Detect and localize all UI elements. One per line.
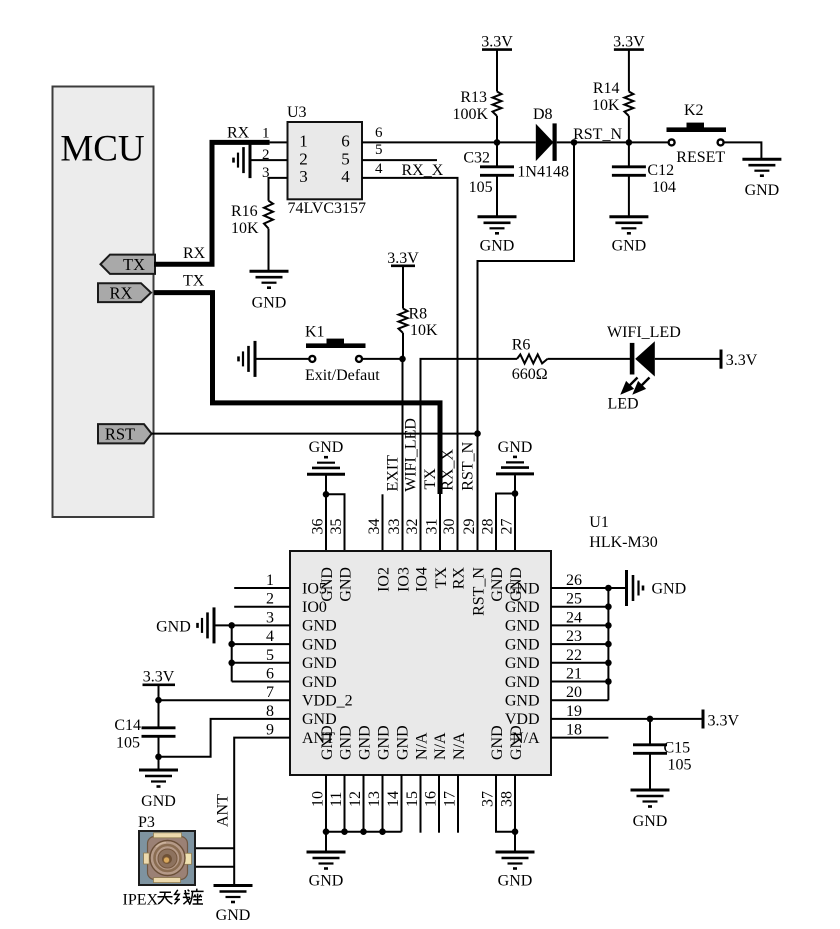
svg-text:D8: D8 [533, 106, 553, 123]
svg-text:14: 14 [385, 791, 402, 807]
wire tie pins 26-20 [607, 588, 609, 700]
svg-text:IO4: IO4 [413, 567, 430, 592]
svg-text:104: 104 [652, 179, 676, 196]
svg-text:GND: GND [489, 567, 506, 602]
svg-text:23: 23 [566, 628, 582, 645]
svg-text:19: 19 [566, 703, 582, 720]
svg-text:GND: GND [505, 693, 540, 710]
svg-text:N/A: N/A [432, 732, 449, 760]
svg-text:ANT: ANT [215, 794, 232, 827]
node B junction [626, 139, 633, 146]
wire tie to ground [325, 832, 327, 852]
wire U1 pin10 [325, 775, 327, 832]
wire U1 pin6 [232, 681, 290, 683]
svg-text:TX: TX [183, 273, 205, 290]
svg-text:105: 105 [469, 179, 493, 196]
svg-text:36: 36 [310, 519, 327, 535]
wire U3 pin6 to node A (D8 anode) [362, 141, 536, 143]
capacitor C14 [142, 726, 176, 729]
wire U1 pin14 [401, 775, 403, 832]
svg-text:U1: U1 [589, 514, 609, 531]
wire U1 pin 21 [551, 681, 608, 683]
svg-text:RST: RST [105, 424, 135, 443]
svg-text:3.3V: 3.3V [708, 713, 740, 730]
junction pin5 [228, 660, 235, 667]
ground (below C15) [631, 789, 670, 792]
svg-text:GND: GND [302, 636, 337, 653]
svg-text:105: 105 [668, 757, 692, 774]
svg-text:29: 29 [461, 519, 478, 535]
wire R16 to ground [268, 229, 270, 272]
svg-text:GND: GND [156, 619, 191, 636]
svg-text:GND: GND [745, 182, 780, 199]
svg-text:WIFI_LED: WIFI_LED [607, 324, 681, 341]
wire U1 pin37 [496, 775, 515, 832]
svg-text:2: 2 [266, 591, 274, 608]
node A junction [494, 139, 501, 146]
svg-text:GND: GND [498, 873, 533, 890]
wire U1 pin12 [363, 775, 365, 832]
junction pin3 [228, 622, 235, 629]
svg-text:RST_N: RST_N [460, 441, 477, 490]
wire U1 pin34 stub [382, 494, 384, 551]
wire tie pins3-6 [231, 625, 233, 681]
svg-text:GND: GND [302, 655, 337, 672]
junction RST/RST_N [474, 430, 481, 437]
wire RX thick (MCU TX to U3 pin1) [154, 142, 270, 264]
junction pin19/C15 [647, 716, 654, 723]
LED arrows [623, 378, 650, 393]
svg-text:GND: GND [319, 567, 336, 602]
svg-text:1: 1 [299, 132, 308, 151]
port RST (MCU) [98, 424, 152, 443]
wire U1 pin27 [514, 494, 516, 552]
junction pin7/3.3V [155, 697, 162, 704]
svg-text:37: 37 [480, 791, 497, 807]
wire 37/38 tie to ground [514, 832, 516, 852]
svg-text:2: 2 [299, 149, 308, 168]
svg-text:33: 33 [386, 519, 403, 535]
node C junction (K1/R8/EXIT) [399, 356, 406, 363]
svg-text:RST_N: RST_N [470, 567, 487, 616]
wire RST_N vertical jog [478, 142, 575, 551]
svg-text:R6: R6 [512, 336, 531, 353]
svg-text:LED: LED [608, 396, 639, 413]
svg-text:C14: C14 [114, 717, 141, 734]
IC U3 body [288, 122, 363, 199]
junction pin 21 [605, 678, 612, 685]
wire U1 pin7 to 3.3V [159, 699, 291, 701]
wire R13 to node A [496, 116, 498, 142]
svg-text:11: 11 [328, 792, 345, 807]
svg-text:GND: GND [652, 581, 687, 598]
ground GND (above U1 pins 36/35) [307, 473, 345, 476]
junction pin12 [360, 828, 367, 835]
svg-text:3.3V: 3.3V [726, 352, 758, 369]
svg-text:C15: C15 [664, 740, 691, 757]
svg-text:35: 35 [328, 519, 345, 535]
svg-text:GND: GND [612, 238, 647, 255]
IC U1 body [290, 551, 551, 775]
wire U1 pin1 stub [234, 587, 290, 589]
svg-text:RX: RX [227, 125, 250, 142]
svg-text:7: 7 [266, 684, 274, 701]
junction pin 25 [605, 603, 612, 610]
wire U1 pin9 / ANT [234, 738, 290, 886]
wire U1 pin35 [326, 494, 345, 551]
svg-text:K1: K1 [305, 324, 325, 341]
svg-text:17: 17 [442, 791, 459, 807]
svg-text:16: 16 [423, 791, 440, 807]
svg-text:100K: 100K [452, 106, 488, 123]
junction pin 22 [605, 660, 612, 667]
wire U1 pin26 to ground [551, 587, 627, 589]
capacitor C12 [628, 142, 630, 166]
wire U1 pin3 [214, 624, 290, 626]
svg-text:3: 3 [299, 167, 308, 186]
wire U1 pin4 [232, 643, 290, 645]
svg-text:GND: GND [505, 599, 540, 616]
junction pin26 [605, 585, 612, 592]
junction pin11 [341, 828, 348, 835]
wire U1 pin8 [159, 719, 291, 757]
svg-text:GND: GND [505, 580, 540, 597]
svg-text:WIFI_LED: WIFI_LED [403, 418, 420, 492]
capacitor C15 [649, 719, 651, 744]
ground (below pins 37/38) [496, 851, 535, 854]
junction pin 24 [605, 622, 612, 629]
svg-text:GND: GND [309, 439, 344, 456]
svg-text:GND: GND [302, 618, 337, 635]
wire U1 pin28 [496, 494, 515, 552]
svg-text:15: 15 [404, 791, 421, 807]
ground (below C12) [609, 215, 648, 218]
svg-text:20: 20 [566, 684, 582, 701]
svg-text:VDD_2: VDD_2 [302, 693, 353, 710]
junction RST_N tap [571, 139, 578, 146]
svg-text:8: 8 [266, 703, 274, 720]
svg-text:GND: GND [480, 238, 515, 255]
svg-text:GND: GND [319, 725, 336, 760]
svg-text:5: 5 [266, 647, 274, 664]
ground (U1 pin3, sideways) [213, 607, 216, 643]
svg-text:GND: GND [498, 439, 533, 456]
svg-text:21: 21 [566, 666, 582, 683]
svg-text:3.3V: 3.3V [613, 33, 645, 50]
svg-text:4: 4 [341, 167, 350, 186]
wire U3 pin4 / RX_X [362, 178, 458, 551]
svg-text:1N4148: 1N4148 [517, 163, 569, 180]
junction pin38 [512, 828, 519, 835]
svg-text:6: 6 [375, 125, 383, 141]
resistor R8 [399, 309, 408, 334]
svg-text:GND: GND [633, 813, 668, 830]
svg-text:32: 32 [404, 519, 421, 535]
wire U1 pin 25 [551, 606, 608, 608]
wire ANT to P3 (upper) [195, 847, 234, 849]
wire U1 pin11 [344, 775, 346, 832]
capacitor C32 [496, 142, 498, 166]
svg-text:38: 38 [499, 791, 516, 807]
wire U1 pin15 stub [420, 775, 422, 833]
wire U1 pin18 stub [551, 737, 608, 739]
svg-text:R8: R8 [409, 305, 428, 322]
wire R14 to node B [628, 116, 630, 142]
svg-text:VDD: VDD [505, 711, 540, 728]
svg-text:N/A: N/A [512, 730, 540, 747]
svg-text:RX: RX [110, 283, 133, 302]
diode D8 [536, 124, 554, 161]
svg-text:GND: GND [141, 793, 176, 810]
svg-text:GND: GND [489, 725, 506, 760]
port RX (MCU) [98, 283, 151, 302]
wire U1 pin36 [325, 494, 327, 551]
svg-text:RX: RX [450, 567, 467, 590]
junction pin10 [323, 828, 330, 835]
svg-text:P3: P3 [138, 814, 155, 831]
LED WIFI_LED (D) [630, 343, 635, 375]
wire D8 cathode to K2 node [557, 141, 669, 143]
wire LED to 3.3V [655, 358, 720, 360]
svg-text:10K: 10K [592, 97, 620, 114]
svg-text:28: 28 [480, 519, 497, 535]
svg-text:18: 18 [566, 722, 582, 739]
svg-text:TX: TX [123, 255, 145, 274]
junction pin 23 [605, 641, 612, 648]
junction C14 bottom / pin8 wire [155, 754, 162, 761]
svg-text:GND: GND [356, 725, 373, 760]
svg-text:25: 25 [566, 591, 582, 608]
svg-text:GND: GND [394, 725, 411, 760]
svg-text:6: 6 [266, 666, 274, 683]
connector P3 photo (IPEX) [139, 831, 195, 885]
svg-text:10K: 10K [231, 220, 259, 237]
svg-text:12: 12 [347, 791, 364, 807]
svg-text:27: 27 [499, 519, 516, 535]
wire K1 ground to left contact [255, 358, 309, 360]
svg-text:RX: RX [183, 245, 206, 262]
svg-text:6: 6 [341, 132, 350, 151]
svg-text:GND: GND [505, 674, 540, 691]
ground (below pins 10-14) [307, 851, 346, 854]
svg-text:105: 105 [116, 735, 140, 752]
ground (below C32) [478, 215, 517, 218]
svg-text:RX_X: RX_X [402, 162, 444, 179]
svg-text:GND: GND [216, 907, 251, 924]
svg-text:3.3V: 3.3V [387, 250, 419, 267]
svg-text:5: 5 [341, 149, 350, 168]
svg-text:R14: R14 [593, 80, 620, 97]
svg-text:30: 30 [441, 519, 458, 535]
wire U3 pin3 to R16 [269, 178, 288, 201]
wire K2 to ground [724, 142, 762, 159]
svg-text:IO2: IO2 [375, 567, 392, 592]
ground (below R16) [250, 270, 289, 273]
svg-text:K2: K2 [684, 102, 704, 119]
resistor R13 [493, 92, 502, 117]
power 3.3V (LED side) [720, 350, 723, 369]
svg-text:3: 3 [266, 609, 274, 626]
wire TX thick (MCU RX to U1 pin31) [154, 293, 440, 494]
svg-text:C12: C12 [647, 162, 674, 179]
svg-text:TX: TX [433, 567, 450, 589]
svg-text:GND: GND [505, 655, 540, 672]
wire U1 pin5 [232, 662, 290, 664]
svg-text:RX_X: RX_X [440, 448, 457, 490]
svg-text:GND: GND [375, 725, 392, 760]
wire U1 pin 22 [551, 662, 608, 664]
resistor R14 [624, 92, 633, 117]
svg-text:HLK-M30: HLK-M30 [589, 534, 657, 551]
wire U1 pin2 stub [234, 606, 290, 608]
svg-text:GND: GND [309, 873, 344, 890]
svg-text:TX: TX [422, 468, 439, 490]
wire RST (MCU RST to RST_N column) [152, 433, 478, 435]
svg-text:13: 13 [366, 791, 383, 807]
svg-text:GND: GND [252, 295, 287, 312]
ground (below P3 wire) [214, 884, 253, 887]
MCU block [53, 87, 154, 518]
svg-text:R16: R16 [231, 203, 258, 220]
wire tie pins10-14 [326, 831, 402, 833]
wire U3 pin5 stub [362, 159, 437, 161]
svg-text:22: 22 [566, 647, 582, 664]
svg-text:26: 26 [566, 572, 582, 589]
resistor R16 [264, 201, 273, 229]
svg-text:660Ω: 660Ω [512, 366, 548, 383]
power 3.3V (pin19) [702, 710, 705, 729]
svg-text:4: 4 [375, 161, 383, 177]
wire U1 pin16 stub [438, 775, 440, 833]
svg-text:N/A: N/A [413, 732, 430, 760]
wire U1 pin 24 [551, 624, 608, 626]
svg-text:3.3V: 3.3V [143, 669, 175, 686]
svg-text:IPEX: IPEX [123, 892, 159, 909]
svg-text:4: 4 [266, 628, 274, 645]
svg-text:N/A: N/A [451, 732, 468, 760]
svg-text:1: 1 [266, 572, 274, 589]
wire U3 pin2 to ground [250, 159, 288, 161]
port TX (MCU) [101, 255, 156, 274]
wire P3 shield (lower) [195, 866, 234, 868]
svg-text:10K: 10K [410, 322, 438, 339]
wire U1 pin17 stub [457, 775, 459, 833]
svg-text:GND: GND [302, 674, 337, 691]
svg-text:EXIT: EXIT [385, 455, 402, 492]
wire U1 pin13 [382, 775, 384, 832]
ground (U1 pin26, sideways) [625, 570, 628, 606]
svg-text:10: 10 [310, 791, 327, 807]
ground (K1, sideways) [254, 341, 257, 377]
svg-text:IO3: IO3 [395, 567, 412, 592]
svg-text:31: 31 [424, 519, 441, 535]
wire EXIT column (node C to U1 pin33) [402, 359, 404, 551]
resistor R6 [517, 354, 548, 363]
svg-text:5: 5 [375, 142, 383, 158]
svg-text:1: 1 [262, 126, 270, 142]
svg-text:GND: GND [505, 636, 540, 653]
svg-text:RST_N: RST_N [573, 126, 622, 143]
junction pin4 [228, 641, 235, 648]
wire WIFI_LED column (U1 pin32 to R6) [421, 359, 518, 551]
svg-text:GND: GND [505, 618, 540, 635]
wire U1 pin 23 [551, 643, 608, 645]
pushbutton K1 [306, 343, 366, 348]
svg-text:3.3V: 3.3V [481, 33, 513, 50]
svg-text:U3: U3 [287, 104, 307, 121]
junction pin13 [379, 828, 386, 835]
wire R6 to LED [548, 358, 632, 360]
wire R8 to node C [402, 333, 404, 359]
svg-text:R13: R13 [460, 89, 487, 106]
svg-text:34: 34 [366, 519, 383, 535]
wire U1 pin31 stub [439, 494, 441, 551]
svg-text:GND: GND [337, 567, 354, 602]
svg-text:74LVC3157: 74LVC3157 [288, 200, 367, 217]
svg-text:Exit/Defaut: Exit/Defaut [305, 367, 380, 384]
ground GND (above U1 pins 28/27) [496, 472, 534, 475]
svg-text:9: 9 [266, 722, 274, 739]
wire U1 pin19 / VDD to 3.3V [551, 718, 702, 720]
ground (U3 pin2, sideways) [249, 142, 252, 178]
ground (K2) [742, 158, 781, 161]
svg-text:24: 24 [566, 609, 582, 626]
wire U1 pin20 [551, 699, 608, 701]
pushbutton K2 [667, 127, 727, 132]
wire K1 right contact to node C [362, 358, 403, 360]
wire U1 pin38 [514, 775, 516, 832]
svg-text:GND: GND [337, 725, 354, 760]
svg-text:C32: C32 [463, 149, 490, 166]
svg-text:MCU: MCU [60, 129, 144, 170]
svg-text:RESET: RESET [676, 149, 725, 166]
ground (below C14) [139, 769, 178, 772]
wire U3 pin1 stub [270, 141, 288, 143]
